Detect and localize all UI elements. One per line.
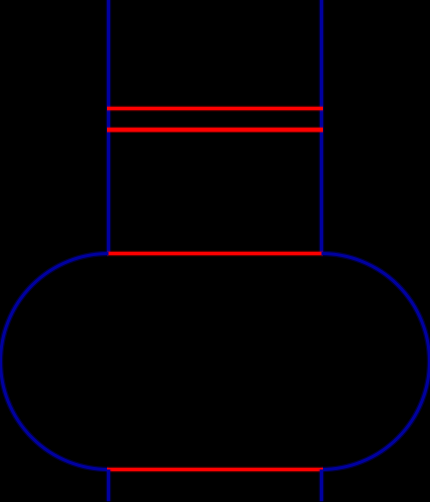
body right semicircular wall (blue)	[322, 254, 430, 470]
neck left wall (blue)	[106, 0, 111, 254]
neck right wall (blue)	[319, 0, 324, 254]
red neck line 2 (lower, thicker)	[107, 127, 323, 133]
bottom right outlet stub (blue)	[319, 470, 324, 502]
bottom left outlet stub (blue)	[106, 470, 111, 502]
red neck line 1 (upper)	[107, 106, 323, 111]
body left semicircular wall (blue)	[0, 254, 108, 470]
body bottom red line	[107, 467, 323, 472]
body top red line	[107, 251, 323, 256]
